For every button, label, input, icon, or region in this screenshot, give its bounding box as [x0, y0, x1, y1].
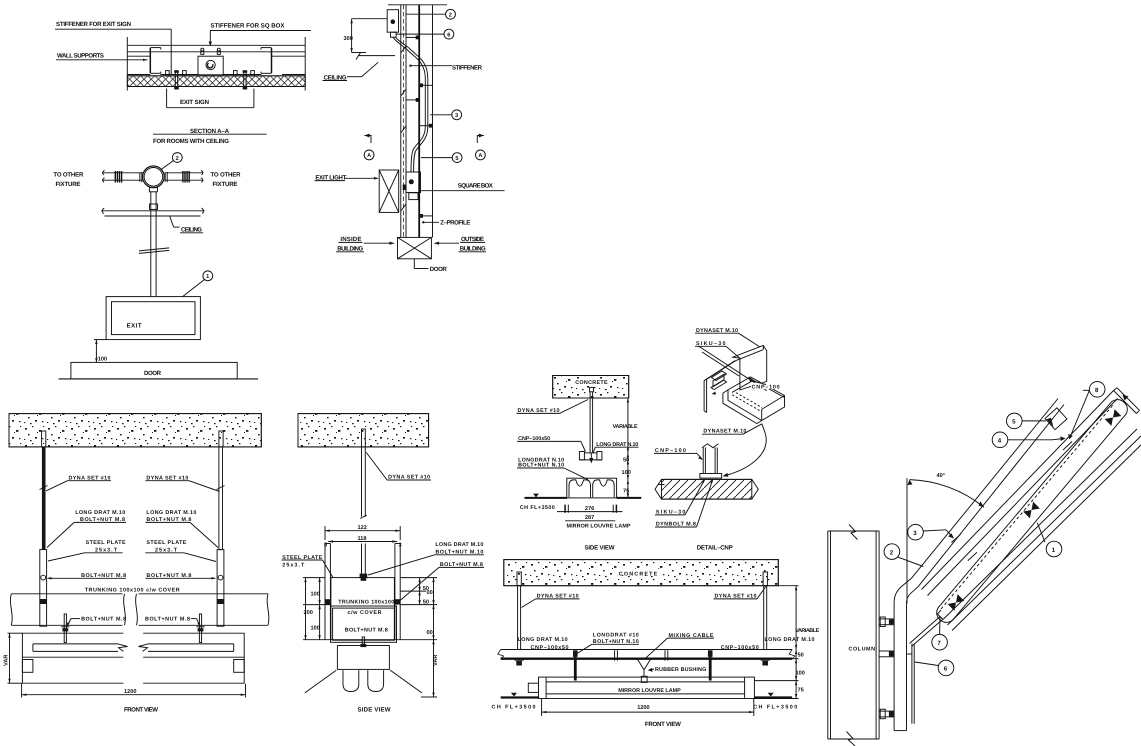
wall diagonal ticks: [401, 46, 406, 53]
clip 4: [251, 71, 255, 76]
lamp body lower edges: [943, 429, 1137, 620]
bolt bottom: [879, 710, 894, 712]
concrete slab side view: [298, 414, 429, 447]
hanger rod right: [219, 431, 223, 447]
svg-text:TO OTHER: TO OTHER: [211, 172, 242, 179]
svg-text:3: 3: [913, 530, 917, 537]
balloon 3 section: [452, 110, 462, 120]
louvre slot: [33, 643, 118, 645]
balloon 2 section: [446, 9, 456, 19]
hub below junction box: [149, 188, 157, 192]
right dim chain outer: [433, 578, 435, 697]
rod lower segment: [361, 544, 363, 578]
svg-text:DETAIL–CNP: DETAIL–CNP: [697, 545, 733, 552]
exit sign bracket: [166, 89, 168, 108]
flange bars right of circle: [164, 173, 166, 182]
svg-text:100: 100: [622, 470, 631, 476]
lamp tube pill: [933, 396, 1131, 626]
column: [827, 531, 829, 739]
svg-text:STIFFENER FOR SQ BOX: STIFFENER FOR SQ BOX: [211, 22, 286, 29]
frame vertical right: [432, 5, 434, 238]
balloon 6 section: [444, 29, 454, 39]
balloon 1 right: [1046, 541, 1062, 557]
svg-text:7: 7: [937, 640, 941, 647]
cnp channel section: [579, 452, 584, 460]
clip 2: [183, 71, 187, 76]
leader ceiling: [170, 216, 174, 227]
svg-text:276: 276: [585, 506, 594, 512]
trunking top line: [11, 593, 122, 595]
svg-text:RUBBER BUSHING: RUBBER BUSHING: [655, 667, 706, 673]
bolt below trunking left: [64, 614, 66, 643]
svg-text:2: 2: [449, 13, 452, 19]
rod break marks: [40, 486, 48, 490]
dim 300: [352, 18, 388, 20]
svg-text:50: 50: [798, 653, 804, 659]
svg-text:LONG DRAT M.10: LONG DRAT M.10: [518, 637, 568, 643]
svg-text:100: 100: [311, 592, 320, 598]
svg-text:A: A: [478, 153, 482, 159]
rod mirror side: [590, 387, 594, 391]
hanger bolt right heavy: [708, 650, 713, 657]
concrete slab front mirror: [504, 560, 779, 586]
svg-text:75: 75: [623, 489, 629, 495]
svg-text:50: 50: [423, 600, 429, 606]
svg-text:DOOR: DOOR: [144, 370, 162, 377]
ceiling line: [101, 210, 204, 212]
svg-text:287: 287: [585, 515, 594, 521]
bracket below top box: [391, 32, 397, 37]
dim 118: [328, 541, 397, 543]
bolt mid: [879, 650, 894, 652]
svg-text:00: 00: [427, 630, 433, 636]
floor line: [59, 378, 259, 380]
wall inner line segments: [127, 55, 150, 57]
square box section: [406, 172, 421, 193]
svg-text:8: 8: [1095, 387, 1099, 394]
svg-text:1200: 1200: [124, 689, 136, 695]
hanger rod side: [362, 429, 366, 447]
svg-text:CNP–100x50: CNP–100x50: [721, 645, 759, 651]
rubber bushing: [641, 676, 647, 682]
sq box bolt left: [201, 51, 204, 54]
svg-text:EXIT SIGN: EXIT SIGN: [180, 99, 209, 106]
svg-text:5: 5: [455, 156, 458, 162]
exit sign box outer: [106, 297, 200, 340]
base plate: [700, 474, 722, 479]
steel plate left: [40, 550, 47, 627]
floor slab hatched: [662, 479, 752, 499]
stiffener angle right: [271, 48, 273, 73]
balloon 5 section: [452, 153, 462, 163]
trunking box side: [331, 578, 395, 640]
svg-text:BOLT+NUT M.8: BOLT+NUT M.8: [345, 628, 388, 634]
conduit s-curve 1: [393, 37, 425, 172]
svg-text:4: 4: [998, 438, 1002, 445]
dim 276: [557, 511, 623, 513]
top fixture box: [387, 10, 398, 33]
svg-text:1: 1: [206, 274, 209, 280]
bowtie clip 1: [948, 594, 965, 611]
svg-text:WALL SUPPORTS: WALL SUPPORTS: [57, 52, 104, 59]
svg-text:STEEL PLATE: STEEL PLATE: [86, 540, 126, 546]
rod right front mirror: [763, 572, 767, 586]
svg-text:A: A: [367, 153, 371, 159]
svg-text:LONG DRAT M.10: LONG DRAT M.10: [765, 637, 815, 643]
rod left front mirror: [517, 572, 521, 586]
louvre arch right: [593, 480, 615, 497]
svg-text:FIXTURE: FIXTURE: [56, 181, 81, 188]
svg-text:MIRROR LOUVRE LAMP: MIRROR LOUVRE LAMP: [618, 688, 681, 694]
svg-text:SIDE VIEW: SIDE VIEW: [358, 707, 391, 714]
svg-text:STEEL PLATE: STEEL PLATE: [146, 540, 186, 546]
wall second line: [127, 51, 305, 53]
svg-text:TO OTHER: TO OTHER: [53, 172, 84, 179]
frame vertical dashed: [402, 5, 404, 238]
svg-text:3: 3: [455, 113, 458, 119]
conduit arm right: [165, 172, 204, 174]
lower cnp channel: [702, 448, 704, 474]
bolt below trunking right: [199, 614, 201, 643]
svg-text:CH FL+3500: CH FL+3500: [520, 505, 555, 511]
cable clamp posts: [614, 650, 616, 660]
level marker mirror: [533, 494, 539, 498]
balloon 2 right: [884, 544, 900, 560]
svg-text:CNP–100: CNP–100: [752, 385, 780, 391]
svg-text:BOLT+NUT M.8: BOLT+NUT M.8: [81, 616, 126, 622]
svg-text:SIDE VIEW: SIDE VIEW: [585, 545, 615, 552]
trunking bottom line: [11, 624, 122, 626]
anchor bolt left: [175, 72, 177, 90]
tie 4: [419, 125, 432, 127]
junction box item5: [1045, 408, 1067, 430]
tie 5 z-profile: [419, 215, 432, 217]
knockout circle symbol: [206, 60, 215, 69]
svg-text:VARIABLE: VARIABLE: [795, 628, 819, 634]
pipe break symbol: [139, 248, 169, 251]
section flag A right: [477, 136, 484, 144]
balloon 7: [932, 634, 948, 650]
svg-text:CONCRETE: CONCRETE: [575, 380, 608, 386]
ceiling line right: [754, 696, 792, 698]
left dim chain: [303, 577, 325, 579]
tie 3: [416, 98, 420, 102]
drop rod item6: [911, 644, 913, 724]
housing step left: [22, 660, 33, 673]
bottom fixture block: [337, 646, 389, 670]
svg-text:75: 75: [798, 688, 804, 694]
balloon 3: [908, 524, 924, 540]
svg-text:STIFFENER FOR EXIT SIGN: STIFFENER FOR EXIT SIGN: [56, 21, 131, 28]
svg-text:1200: 1200: [637, 705, 649, 711]
balloon 8: [1089, 382, 1105, 398]
exit light box: [379, 170, 399, 212]
conduit arm left: [102, 172, 143, 174]
svg-text:STIFFENER: STIFFENER: [452, 65, 483, 72]
svg-text:6: 6: [447, 32, 450, 38]
svg-text:1: 1: [1052, 547, 1056, 554]
iso clamp bracket: [712, 371, 727, 381]
bolt top: [879, 618, 894, 620]
svg-text:LONG DRAT M.10: LONG DRAT M.10: [75, 510, 125, 516]
iso long brace line: [698, 346, 766, 391]
concrete slab mirror side view: [553, 376, 629, 399]
vertical reference line: [906, 478, 908, 603]
door sill box: [398, 237, 432, 258]
dim 1200: [21, 684, 23, 698]
label DOOR section: [413, 259, 415, 269]
svg-text:100: 100: [311, 626, 320, 632]
coupling right: [182, 171, 184, 183]
exit sign box inner: [112, 302, 196, 335]
dim 100 below box: [94, 339, 106, 341]
svg-text:00: 00: [427, 590, 433, 596]
leader stiffener-for-exit-sign: [55, 28, 171, 30]
bowtie clip 2: [1023, 502, 1040, 519]
svg-text:TRUNKING 100x100: TRUNKING 100x100: [338, 599, 394, 605]
dim VAR left: [9, 633, 11, 683]
support rod edge 2: [918, 405, 1064, 587]
plate nuts: [325, 599, 330, 604]
iso left plate: [703, 381, 705, 411]
svg-text:VAR: VAR: [433, 655, 439, 666]
room bottom line: [127, 74, 150, 76]
concrete slab front view: [9, 414, 261, 447]
louvre arch left: [569, 480, 591, 497]
ceiling splay lines: [305, 670, 337, 693]
cnp channel front: [501, 649, 792, 651]
svg-text:LONG DRAT M.10: LONG DRAT M.10: [435, 542, 483, 548]
svg-text:6: 6: [944, 666, 948, 673]
svg-text:c/w COVER: c/w COVER: [348, 610, 382, 616]
dim ticks on channel: [952, 534, 961, 542]
svg-text:200: 200: [304, 610, 313, 616]
frame vertical outer left: [400, 5, 402, 238]
svg-text:25x3.T: 25x3.T: [282, 562, 305, 568]
svg-text:LONGDRAT #10: LONGDRAT #10: [593, 633, 639, 639]
svg-text:100: 100: [98, 357, 107, 363]
svg-text:5: 5: [1012, 419, 1016, 426]
support arm bend: [894, 578, 911, 603]
svg-text:Z–PROFILE: Z–PROFILE: [440, 219, 470, 226]
svg-text:DOOR: DOOR: [430, 266, 448, 273]
balloon 2 elevation: [172, 153, 182, 163]
mirror lamp box: [567, 478, 617, 498]
bowtie clip 3: [1105, 409, 1122, 426]
conduit drop: [150, 192, 152, 297]
svg-text:118: 118: [358, 536, 367, 542]
side plate left: [324, 544, 326, 640]
lamp tubes side: [343, 670, 359, 691]
lower support lines to plate: [910, 617, 941, 644]
svg-text:2: 2: [890, 549, 894, 556]
tie 2: [419, 84, 432, 86]
svg-text:2: 2: [176, 156, 179, 162]
svg-text:50: 50: [623, 458, 629, 464]
svg-text:SQUARE BOX: SQUARE BOX: [458, 182, 494, 189]
ceiling line section: [358, 55, 395, 57]
lamp housing front: [22, 633, 123, 683]
right dim chain front mirror: [778, 585, 798, 587]
balloon 6 right: [938, 660, 954, 676]
section flag A left: [365, 136, 372, 144]
svg-text:VAR: VAR: [4, 655, 10, 666]
stiffener angle left: [149, 48, 151, 73]
anchor bolt right: [244, 72, 246, 90]
lamp housing front mirror: [539, 677, 755, 698]
dim 1200 mirror: [541, 699, 543, 717]
svg-text:40°: 40°: [937, 473, 945, 479]
frame vertical inner: [405, 5, 407, 238]
iso cnp channel: [728, 377, 785, 421]
mixing cable V: [637, 659, 644, 670]
housing inner line: [22, 656, 123, 658]
hanger rod left (solid): [42, 431, 46, 447]
steel plate right: [217, 550, 224, 627]
svg-text:COLUMN: COLUMN: [849, 647, 876, 653]
hanger bolt left heavy: [573, 650, 578, 657]
bottom bolt side: [362, 637, 364, 644]
wall right boundary: [304, 37, 306, 91]
svg-text:CNP–100x50: CNP–100x50: [531, 645, 569, 651]
dim 287: [565, 520, 615, 522]
svg-text:VARIABLE: VARIABLE: [613, 424, 638, 430]
svg-text:MIRROR LOUVRE LAMP: MIRROR LOUVRE LAMP: [567, 524, 631, 530]
svg-text:FRONT VIEW: FRONT VIEW: [645, 721, 681, 728]
lamp body end plate: [1114, 391, 1137, 414]
lamp bottom tip: [938, 610, 944, 620]
leader wall-supports: [56, 59, 148, 61]
clip 1: [166, 71, 170, 76]
mounting plate: [893, 604, 895, 731]
sq box bolt right: [217, 51, 220, 54]
leader stiffener-for-sq-box: [210, 30, 311, 32]
trunking break marks: [124, 594, 126, 626]
iso channel lower lip: [723, 390, 762, 424]
svg-text:122: 122: [358, 525, 367, 531]
lamp body top edge 2: [928, 399, 1118, 596]
tie at top: [406, 36, 419, 38]
iso big plate: [733, 345, 767, 390]
wall top line: [127, 44, 305, 46]
clip 3: [234, 71, 238, 76]
svg-text:TRUNKING 100x100 c/w COVER: TRUNKING 100x100 c/w COVER: [85, 588, 180, 594]
flange bars left of circle: [139, 173, 141, 182]
side plate right: [394, 544, 396, 640]
svg-text:CH FL+3500: CH FL+3500: [753, 705, 797, 711]
arc leader to bolt: [726, 434, 767, 475]
svg-text:FRONT VIEW: FRONT VIEW: [124, 707, 158, 714]
right dim chain inner: [400, 577, 437, 579]
coupling on drop: [150, 204, 158, 209]
masonry hatch band: [127, 76, 305, 87]
svg-text:300: 300: [344, 36, 353, 42]
svg-text:BOLT+NUT M.8: BOLT+NUT M.8: [145, 616, 190, 622]
cover box: [331, 606, 397, 642]
ceiling line left: [501, 696, 539, 698]
lamp body top edge: [922, 391, 1114, 590]
rod nuts below channel: [515, 659, 524, 661]
svg-text:CH FL+3500: CH FL+3500: [492, 705, 536, 711]
svg-text:LONG DRAT M.10: LONG DRAT M.10: [146, 510, 196, 516]
svg-text:100: 100: [796, 671, 805, 677]
square box: [198, 56, 223, 75]
support rod edge 1: [912, 399, 1059, 579]
junction box circle: [143, 166, 165, 188]
ceiling line mirror: [525, 497, 567, 499]
label CNP-100 iso: [751, 383, 780, 389]
housing step right: [234, 660, 245, 673]
tube dashed centerline: [941, 405, 1113, 609]
coupling left: [114, 171, 116, 183]
right extension chain mirror: [627, 398, 629, 498]
balloon 5: [1007, 413, 1023, 429]
balloon 4: [992, 432, 1008, 448]
door rect: [71, 362, 237, 379]
frame vertical heavy: [418, 5, 420, 238]
dim 122: [325, 530, 400, 532]
conduit s-curve 2: [396, 37, 428, 172]
svg-text:EXIT: EXIT: [127, 322, 142, 329]
frame top line: [388, 4, 447, 6]
wall left boundary: [126, 37, 128, 91]
40 degree arc: [910, 480, 985, 508]
svg-text:FOR ROOMS WITH CEILING: FOR ROOMS WITH CEILING: [153, 138, 229, 145]
svg-text:FIXTURE: FIXTURE: [213, 181, 238, 188]
balloon 1 elevation: [203, 271, 213, 281]
